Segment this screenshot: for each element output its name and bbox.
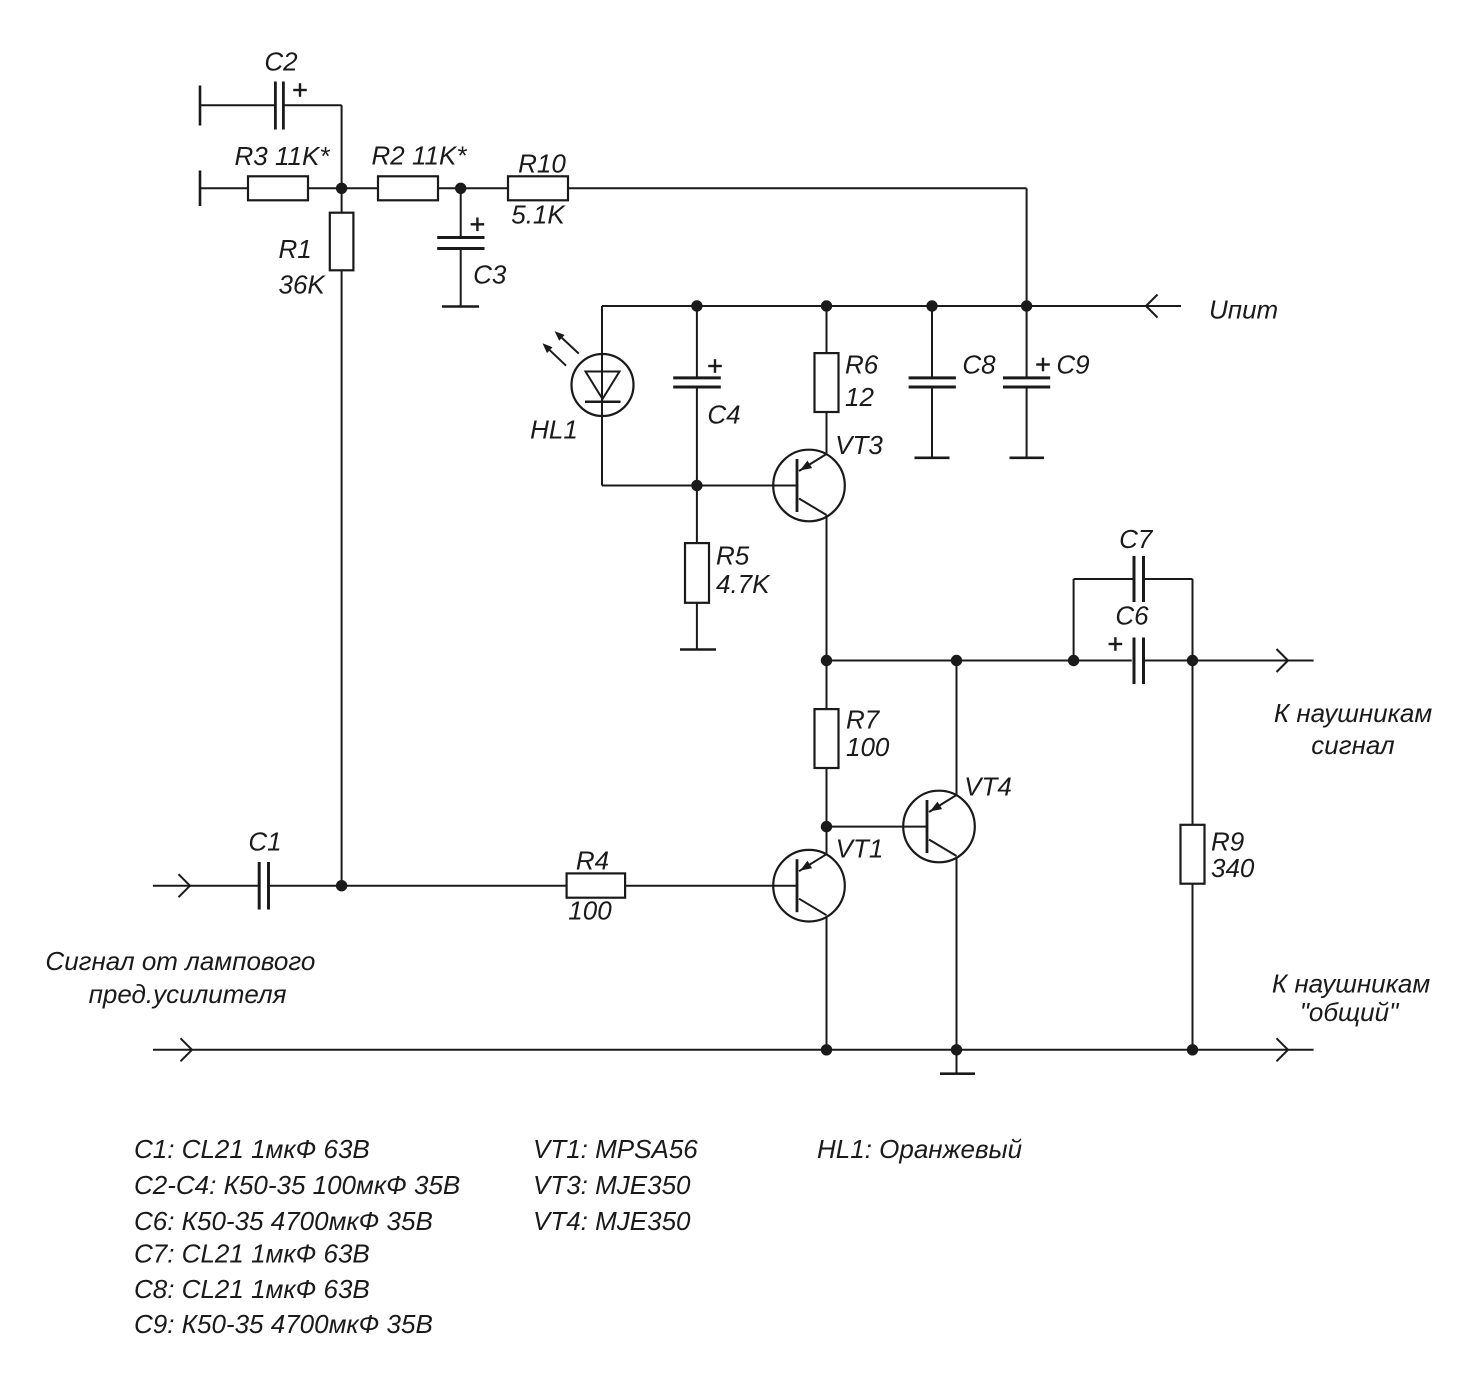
svg-text:C7: C7 bbox=[1119, 524, 1154, 554]
LED HL1 light arrow 1 bbox=[562, 338, 579, 354]
svg-text:VT3: VT3 bbox=[835, 430, 883, 460]
wire bbox=[826, 515, 828, 661]
wire bbox=[200, 104, 276, 106]
svg-text:5.1K: 5.1K bbox=[511, 200, 566, 230]
wire bbox=[826, 917, 828, 1050]
svg-text:R7: R7 bbox=[846, 705, 881, 735]
power rail Uпит wire bbox=[602, 305, 1146, 307]
svg-text:C7: CL21 1мкФ 63В: C7: CL21 1мкФ 63В bbox=[134, 1239, 370, 1269]
svg-text:100: 100 bbox=[846, 732, 890, 762]
Uпит arrow bbox=[1146, 295, 1158, 307]
node (C7 left) bbox=[1068, 655, 1079, 666]
wire bbox=[956, 661, 958, 796]
svg-text:100: 100 bbox=[568, 896, 612, 926]
svg-text:R10: R10 bbox=[518, 149, 566, 179]
svg-text:C8: C8 bbox=[962, 350, 996, 380]
resistor R5 bbox=[696, 486, 698, 544]
svg-text:HL1: HL1 bbox=[530, 415, 578, 445]
svg-text:C9: C9 bbox=[1056, 350, 1089, 380]
wire bbox=[283, 104, 341, 106]
wire bbox=[696, 387, 698, 486]
wire bbox=[1192, 579, 1194, 661]
svg-text:12: 12 bbox=[845, 382, 874, 412]
svg-text:сигнал: сигнал bbox=[1311, 730, 1395, 760]
node D (R7/VT1/VT4 base) bbox=[821, 821, 832, 832]
resistor R6 bbox=[826, 306, 828, 353]
wire bbox=[826, 827, 828, 855]
node B (R2/R10/C3 junction) bbox=[455, 183, 466, 194]
resistor R7 bbox=[826, 661, 828, 710]
wire (base row) bbox=[602, 485, 797, 487]
node (VT3 col/mid rail) bbox=[821, 655, 832, 666]
svg-text:VT3: MJE350: VT3: MJE350 bbox=[533, 1170, 691, 1200]
wire bbox=[1026, 387, 1028, 458]
node (C7 right/R9) bbox=[1187, 655, 1198, 666]
svg-text:HL1: Оранжевый: HL1: Оранжевый bbox=[817, 1134, 1022, 1164]
transistor VT4 bbox=[903, 791, 975, 863]
wire bbox=[200, 187, 248, 189]
svg-text:340: 340 bbox=[1211, 853, 1255, 883]
svg-text:C2-C4: К50-35 100мкФ 35В: C2-C4: К50-35 100мкФ 35В bbox=[134, 1170, 460, 1200]
wire bbox=[601, 306, 603, 486]
svg-text:C9: К50-35 4700мкФ 35В: C9: К50-35 4700мкФ 35В bbox=[134, 1309, 433, 1339]
node (rail/C4) bbox=[691, 300, 702, 311]
node (rail/C9/R10) bbox=[1021, 300, 1032, 311]
wire bbox=[1192, 884, 1194, 1050]
svg-text:C6: C6 bbox=[1115, 601, 1149, 631]
svg-text:пред.усилителя: пред.усилителя bbox=[89, 979, 287, 1009]
bottom input arrow bbox=[181, 1038, 193, 1050]
LED HL1 cathode bar bbox=[585, 400, 621, 403]
terminal bar (C2 input) bbox=[199, 86, 202, 126]
transistor VT3 bbox=[773, 450, 845, 522]
LED HL1 triangle bbox=[586, 372, 620, 400]
wire bbox=[625, 885, 797, 887]
wire bbox=[1074, 578, 1134, 580]
node (rail/R6) bbox=[821, 300, 832, 311]
resistor R3 bbox=[248, 176, 308, 200]
resistor R10 bbox=[508, 176, 568, 200]
ground (bottom) bbox=[956, 1050, 958, 1074]
bottom output arrow bbox=[1277, 1038, 1289, 1050]
capacitor C8 bbox=[931, 306, 933, 378]
wire bbox=[269, 885, 567, 887]
capacitor C7 bbox=[1133, 556, 1136, 602]
svg-text:VT1: MPSA56: VT1: MPSA56 bbox=[533, 1134, 698, 1164]
wire bbox=[438, 187, 508, 189]
svg-text:4.7K: 4.7K bbox=[716, 569, 771, 599]
wire bbox=[826, 768, 828, 827]
svg-text:C1: CL21 1мкФ 63В: C1: CL21 1мкФ 63В bbox=[134, 1134, 370, 1164]
svg-text:C2: C2 bbox=[264, 47, 298, 77]
node C (C4/R5/VT3 base) bbox=[691, 480, 702, 491]
capacitor C2 bbox=[274, 82, 277, 130]
output arrow (signal) bbox=[1277, 649, 1289, 661]
LED HL1 light arrow 2 bbox=[550, 350, 566, 366]
input wire bbox=[153, 885, 259, 887]
wire bbox=[341, 105, 343, 188]
svg-text:C3: C3 bbox=[473, 259, 507, 289]
wire bbox=[308, 187, 378, 189]
node (VT4/mid rail) bbox=[951, 655, 962, 666]
ground (C3) bbox=[442, 305, 479, 308]
wire bbox=[460, 249, 462, 307]
svg-text:R9: R9 bbox=[1211, 827, 1244, 857]
LED HL1 circle bbox=[572, 354, 634, 416]
wire bbox=[1073, 579, 1075, 661]
transistor VT1 bbox=[773, 850, 845, 922]
svg-text:36K: 36K bbox=[279, 270, 327, 300]
node A (R3/R2/R1 junction) bbox=[336, 183, 347, 194]
wire bbox=[931, 387, 933, 458]
mid rail wire bbox=[827, 660, 1132, 662]
svg-text:VT4: VT4 bbox=[964, 772, 1012, 802]
svg-text:R2 11K*: R2 11K* bbox=[372, 141, 468, 171]
capacitor C3 bbox=[460, 188, 462, 237]
svg-text:VT1: VT1 bbox=[836, 834, 884, 864]
svg-text:R1: R1 bbox=[279, 234, 312, 264]
resistor R2 bbox=[378, 176, 438, 200]
terminal bar (R3 input) bbox=[199, 171, 202, 207]
svg-text:VT4: MJE350: VT4: MJE350 bbox=[533, 1206, 691, 1236]
node (VT1 emitter/rail) bbox=[821, 1044, 832, 1055]
wire bbox=[568, 187, 1027, 189]
capacitor C1 bbox=[258, 862, 261, 910]
capacitor C6 bbox=[1133, 638, 1136, 685]
svg-text:"общий": "общий" bbox=[1300, 997, 1400, 1027]
resistor R4 bbox=[567, 873, 626, 897]
capacitor C4 bbox=[696, 306, 698, 378]
wire (VT4 base) bbox=[827, 826, 928, 828]
svg-text:R3 11K*: R3 11K* bbox=[235, 141, 331, 171]
node (R9/rail) bbox=[1187, 1044, 1198, 1055]
svg-text:R6: R6 bbox=[845, 350, 879, 380]
ground (R5) bbox=[680, 648, 716, 651]
wire bbox=[341, 270, 343, 885]
wire bbox=[1026, 188, 1028, 306]
svg-text:C8: CL21 1мкФ 63В: C8: CL21 1мкФ 63В bbox=[134, 1274, 370, 1304]
svg-text:К наушникам: К наушникам bbox=[1272, 969, 1431, 999]
wire bbox=[696, 603, 698, 650]
terminal bar (C8) bbox=[915, 456, 950, 459]
svg-text:R5: R5 bbox=[716, 541, 750, 571]
wire bbox=[826, 412, 828, 454]
svg-text:R4: R4 bbox=[576, 846, 609, 876]
wire bbox=[1144, 660, 1314, 662]
svg-text:C6: К50-35 4700мкФ 35В: C6: К50-35 4700мкФ 35В bbox=[134, 1206, 433, 1236]
capacitor C9 bbox=[1026, 306, 1028, 378]
resistor R1 bbox=[341, 188, 343, 212]
node (C1/R1 junction) bbox=[336, 880, 347, 891]
svg-text:Сигнал от лампового: Сигнал от лампового bbox=[45, 946, 315, 976]
wire bbox=[956, 858, 958, 1050]
input arrow bbox=[179, 874, 191, 886]
svg-text:C1: C1 bbox=[248, 827, 281, 857]
resistor R9 bbox=[1192, 661, 1194, 825]
node (VT4 emitter/rail) bbox=[951, 1044, 962, 1055]
bottom rail wire bbox=[153, 1049, 1314, 1051]
svg-text:C4: C4 bbox=[707, 400, 740, 430]
wire bbox=[1144, 578, 1193, 580]
svg-text:К наушникам: К наушникам bbox=[1274, 698, 1433, 728]
terminal bar (C9) bbox=[1010, 456, 1045, 459]
node (rail/C8) bbox=[926, 300, 937, 311]
svg-text:Uпит: Uпит bbox=[1209, 295, 1278, 325]
